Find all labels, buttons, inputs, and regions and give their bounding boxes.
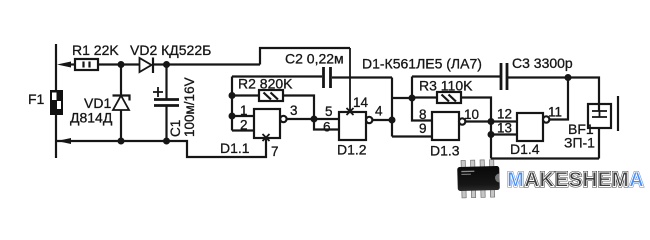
svg-text:MAKESHEMA: MAKESHEMA (507, 168, 644, 192)
wire node E vertical (490, 122, 492, 159)
wire bottom rail to BF1 (491, 157, 599, 159)
wire branch to R3 node (392, 97, 412, 99)
junction node D (409, 95, 416, 102)
wire supply to R1 (66, 63, 75, 65)
ground rail (57, 138, 266, 157)
fuse F1 (50, 90, 63, 115)
wire top loop to C3 (412, 75, 500, 77)
svg-text:D1-К561ЛЕ5 (ЛА7): D1-К561ЛЕ5 (ЛА7) (362, 56, 482, 72)
svg-text:14: 14 (353, 95, 369, 110)
logo chip icon (457, 159, 500, 198)
svg-text:100м/16V: 100м/16V (182, 77, 197, 137)
wire pin 7 ground (263, 134, 270, 157)
capacitor C2 (324, 67, 331, 88)
wire pin 3 output to D1.2 inputs (287, 118, 339, 120)
wire C2 right to pin4 net (332, 76, 392, 78)
arrow into bus on supply wire (57, 62, 71, 68)
svg-text:8: 8 (419, 107, 427, 122)
svg-text:4: 4 (375, 104, 383, 119)
wire supply riser to VDD rail (260, 48, 350, 65)
node B junction (163, 61, 170, 68)
junction VD1 bottom (118, 138, 125, 145)
junction pin1 (229, 113, 236, 120)
svg-text:D1.4: D1.4 (510, 141, 540, 157)
svg-text:R3 110K: R3 110K (419, 78, 473, 94)
resistor R1 (75, 59, 98, 70)
capacitor C3 (501, 63, 507, 90)
node pin4 vertical (391, 78, 393, 137)
wire pin 4 output (372, 119, 392, 121)
junction R2 left (229, 92, 236, 99)
wire pin 11 output up to C3 node (549, 78, 568, 120)
wire top loop to C2 left (232, 75, 322, 77)
svg-text:9: 9 (419, 121, 427, 136)
svg-text:6: 6 (323, 120, 331, 135)
svg-text:Д814Д: Д814Д (70, 110, 113, 126)
node C vertical (D1.1 input net) (231, 77, 233, 131)
wire pin 2 (232, 129, 254, 131)
gate D1.4 (517, 113, 549, 141)
resistor R2 (232, 90, 314, 119)
svg-text:R1 22K: R1 22K (72, 42, 119, 58)
diode VD2 (140, 58, 154, 74)
svg-text:11: 11 (548, 105, 562, 120)
wire R1 to node A (98, 63, 140, 65)
svg-text:7: 7 (271, 144, 279, 159)
svg-text:F1: F1 (28, 91, 45, 107)
wire pin 1 (232, 115, 254, 117)
junction output net (311, 116, 318, 123)
svg-text:1: 1 (240, 103, 248, 118)
svg-text:10: 10 (464, 107, 479, 122)
svg-text:D1.1: D1.1 (220, 140, 250, 156)
wire C3 right to BF1 top (508, 78, 599, 112)
wire pin 9 (392, 135, 432, 137)
capacitor C1 (153, 65, 179, 142)
junction C1 bottom (163, 138, 170, 145)
label C1 100м/16V rotated (168, 77, 197, 137)
wire pin 6 jog (314, 119, 339, 130)
node D vertical and pin 8 (412, 77, 432, 121)
svg-text:C2 0,22м: C2 0,22м (285, 51, 344, 67)
svg-text:2: 2 (240, 118, 248, 133)
gate D1.1 (254, 109, 287, 138)
svg-text:D1.3: D1.3 (430, 143, 460, 159)
junction C3/pin11 (565, 74, 572, 81)
node A junction (118, 61, 125, 68)
junction pin13 (488, 131, 495, 138)
svg-text:3: 3 (290, 103, 298, 118)
junction pin4 (389, 117, 396, 124)
wire pin 10 output to D1.4 pin 12 (465, 120, 517, 122)
gate D1.2 (339, 112, 372, 140)
svg-text:ЗП-1: ЗП-1 (564, 135, 595, 151)
wire VD2 to node B (153, 63, 260, 65)
svg-text:VD2 КД522Б: VD2 КД522Б (130, 42, 211, 58)
svg-text:5: 5 (325, 104, 333, 119)
svg-text:D1.2: D1.2 (337, 142, 367, 158)
svg-text:12: 12 (497, 107, 512, 122)
svg-text:C3 3300p: C3 3300p (512, 55, 573, 71)
svg-text:C1: C1 (168, 120, 183, 137)
svg-text:13: 13 (497, 121, 512, 136)
svg-text:R2 820K: R2 820K (238, 76, 293, 92)
arrow into bus on ground rail (57, 138, 71, 144)
junction R3 right (488, 118, 495, 125)
buzzer BF1 ЗП-1 (588, 96, 618, 159)
wire pin 13 (491, 133, 517, 135)
gate D1.3 (432, 112, 465, 140)
wire left bus top stub (55, 44, 57, 90)
logo text MAKESHEMA (507, 168, 644, 192)
wire left bus bottom stub (55, 115, 57, 158)
wire pin 14 VDD (347, 48, 354, 115)
zener VD1 Д814Д (113, 65, 130, 142)
resistor R3 (412, 92, 491, 122)
